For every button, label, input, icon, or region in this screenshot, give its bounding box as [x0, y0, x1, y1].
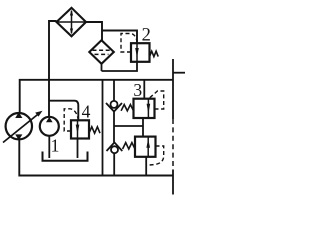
pump P variable arrow	[3, 111, 43, 143]
wire valve 4 drain to tank	[77, 139, 79, 159]
pump 1 top triangle	[46, 117, 53, 122]
wire check chain middle	[113, 112, 115, 143]
check valve upper	[106, 101, 122, 112]
relief valve 2 pilot dashed line	[121, 34, 137, 53]
wire cooler to filter	[86, 22, 102, 41]
relief valve 4 arrow	[76, 120, 80, 138]
relief valve 2 spring	[150, 51, 159, 56]
heat exchanger (temperature controller) diamond	[57, 8, 87, 37]
svg-text:3: 3	[133, 80, 142, 100]
wire outlet stub to system	[173, 72, 185, 74]
relief valve 4 body	[71, 120, 89, 138]
wire right vertical solid lower	[172, 170, 174, 195]
reducing valve spring	[123, 143, 135, 149]
wire main bus from pump P	[20, 80, 173, 113]
wire filter bottom stub	[101, 64, 103, 71]
relief valve 2 arrow	[135, 44, 139, 62]
svg-text:1: 1	[51, 135, 60, 155]
wire pump 1 suction from tank	[48, 136, 50, 158]
reducing valve arrow	[146, 137, 150, 157]
wire reducing valve outlet	[145, 157, 147, 176]
tank symbol	[43, 152, 88, 161]
wire right vertical dashed drain	[172, 119, 174, 170]
wire check valve chain top	[113, 80, 115, 101]
wire valve 3 outlet to valve 6	[142, 118, 144, 137]
pump P variable displacement circle	[6, 113, 32, 139]
wire branch to valve 2 inlet	[102, 31, 137, 44]
wire right vertical solid upper	[172, 59, 174, 119]
relief valve 4 spring	[89, 127, 100, 133]
relief valve 4 pilot dashed line	[64, 109, 78, 131]
relief valve 2 body	[131, 43, 150, 62]
wire branch to valve 4	[49, 101, 78, 121]
filter F1 diamond	[89, 40, 114, 64]
reducing valve pilot dashed line	[146, 146, 164, 165]
relief valve 3 spring	[121, 105, 133, 111]
wire pump1 riser to cooler	[49, 21, 57, 117]
wire mid vertical drop	[102, 80, 104, 176]
wire return line filter to valve 2 outlet	[102, 62, 138, 72]
wire valve 3 inlet riser	[143, 80, 145, 99]
pump 1 circle	[40, 117, 59, 136]
relief valve 3 body	[134, 99, 155, 118]
relief valve 3 pilot dashed line	[149, 91, 164, 109]
wire junction line to valve 3 outlet	[114, 125, 143, 127]
pump P bottom triangle	[15, 134, 22, 140]
pump P top triangle	[15, 112, 22, 118]
wire check chain bottom	[113, 153, 115, 175]
reducing valve body	[135, 137, 156, 157]
check valve lower	[107, 142, 123, 153]
wire pump P drain to bottom bus	[19, 140, 173, 176]
relief valve 3 arrow	[147, 99, 151, 118]
svg-text:2: 2	[142, 26, 151, 46]
svg-text:4: 4	[82, 102, 91, 122]
